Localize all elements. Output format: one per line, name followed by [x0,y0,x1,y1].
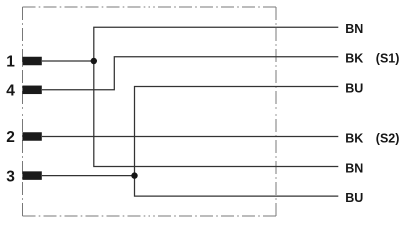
svg-text:3: 3 [6,168,15,185]
svg-text:(S2): (S2) [376,131,400,145]
svg-text:2: 2 [6,129,15,146]
svg-text:BU: BU [345,81,363,95]
svg-text:BK: BK [345,131,363,145]
svg-text:BK: BK [345,52,363,66]
svg-text:4: 4 [6,83,15,100]
svg-text:BN: BN [345,22,363,36]
svg-text:BU: BU [345,191,363,205]
svg-text:BN: BN [345,161,363,175]
svg-text:1: 1 [6,54,15,71]
svg-text:(S1): (S1) [376,52,400,66]
